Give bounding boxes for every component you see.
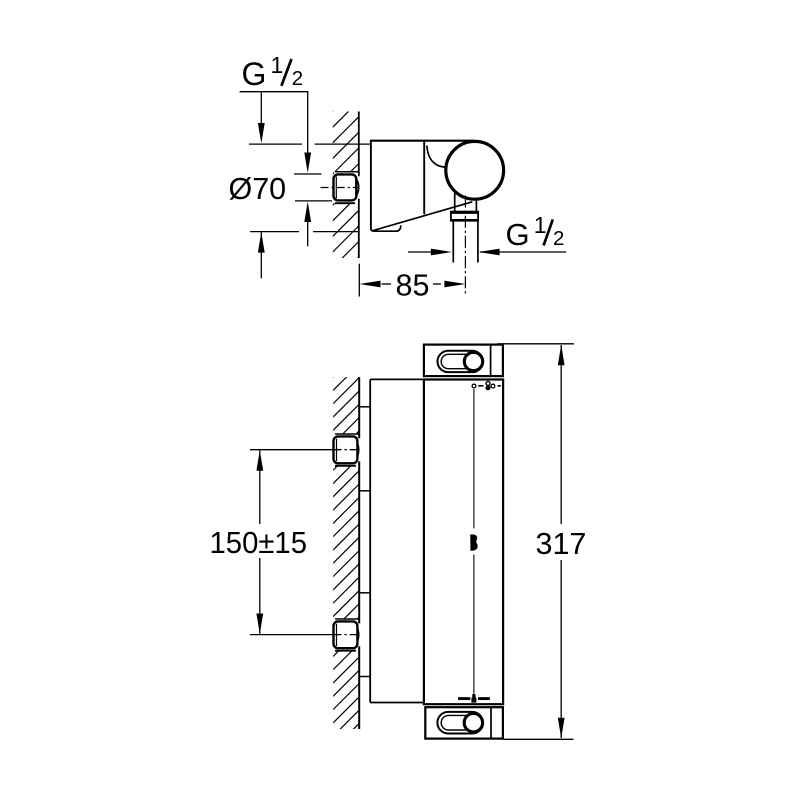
arrow up (150) — [256, 450, 263, 471]
holder wall nut (square union) — [334, 172, 361, 203]
outlet union nut — [450, 212, 479, 221]
top connection box — [424, 345, 503, 377]
clip detail on centerline — [470, 534, 477, 550]
dimension 85 — [359, 264, 441, 297]
upper S-union nut — [334, 434, 361, 466]
svg-text:317: 317 — [536, 527, 587, 561]
svg-text:2: 2 — [553, 227, 564, 250]
bottom union stadium — [437, 712, 483, 734]
svg-text:150±15: 150±15 — [210, 526, 308, 560]
dimension Ø70 — [249, 92, 371, 278]
arrow down (150) — [256, 614, 263, 635]
svg-text:G: G — [242, 56, 267, 92]
thermostat body — [424, 380, 503, 705]
label G 1/2 (outlet) — [506, 212, 565, 252]
bottom centerline dashes — [458, 697, 470, 700]
arrow right at outlet left edge — [408, 251, 432, 253]
outlet pipe under ball — [455, 193, 477, 211]
svg-text:2: 2 — [292, 67, 303, 90]
svg-text:1: 1 — [271, 52, 284, 78]
wall line (top view) — [358, 112, 360, 259]
svg-text:85: 85 — [396, 268, 430, 302]
arrow left at outlet right edge — [479, 249, 500, 256]
wall line (lower view) — [358, 377, 360, 729]
wall hatching (lower view) — [331, 351, 359, 778]
leader for outlet G 1/2 — [480, 251, 566, 253]
top union circle — [464, 352, 482, 370]
bottom connection box — [425, 707, 503, 738]
lower escutcheon — [359, 593, 370, 677]
screw / axis detail under top box — [472, 381, 501, 390]
neck fillet curve — [427, 146, 447, 168]
back plate — [370, 379, 424, 702]
wall hatching (top view) — [331, 86, 359, 301]
top union stadium — [438, 351, 483, 372]
arrow down (317) — [558, 718, 565, 739]
svg-text:Ø70: Ø70 — [229, 172, 287, 206]
lower nut centerline — [250, 634, 333, 636]
lower S-union nut — [334, 619, 361, 651]
outlet pipe below nut — [453, 221, 478, 262]
dimension 317 — [498, 344, 575, 740]
nut centerline — [321, 187, 360, 189]
body centerline — [473, 389, 475, 694]
outlet centerline — [464, 196, 466, 297]
bottom pin detail — [471, 694, 476, 703]
holder body — [370, 141, 474, 232]
arrow right (85) — [444, 281, 465, 288]
dimension 150±15 — [259, 451, 261, 634]
arrow down (Ø70 top) — [258, 123, 265, 144]
arrow left (85) — [360, 281, 381, 288]
upper escutcheon — [359, 407, 370, 491]
arrow up (Ø70 bottom) — [258, 232, 265, 253]
svg-text:1: 1 — [534, 212, 547, 238]
svg-text:G: G — [506, 217, 530, 252]
label G 1/2 (top inlet) — [242, 52, 304, 92]
leader line G 1/2 top — [240, 92, 308, 156]
bottom union circle — [464, 714, 482, 732]
arrow down to thread top — [304, 153, 311, 174]
arrow up to thread bottom — [304, 202, 311, 223]
thread witness lines — [294, 174, 332, 201]
arrow up (317) — [558, 345, 565, 366]
upper nut centerline — [250, 449, 333, 451]
holder ball — [446, 141, 504, 199]
